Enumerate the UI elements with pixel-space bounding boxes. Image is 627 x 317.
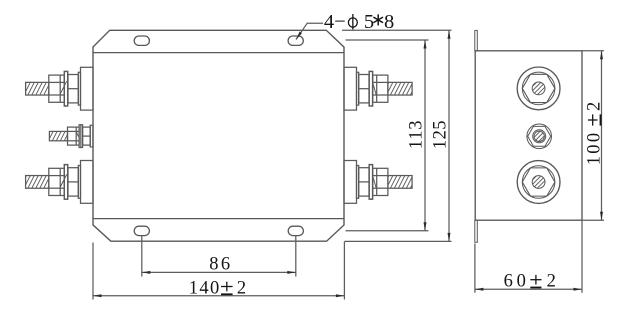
svg-text:125: 125 [430, 120, 450, 149]
svg-text:8: 8 [384, 11, 394, 33]
svg-text:2: 2 [547, 272, 556, 292]
svg-text:2: 2 [237, 278, 246, 298]
svg-text:2: 2 [585, 102, 605, 111]
svg-text:4−: 4− [324, 11, 346, 33]
svg-text:100: 100 [585, 133, 605, 165]
svg-text:60: 60 [504, 272, 526, 292]
svg-text:113: 113 [407, 120, 427, 149]
svg-text:86: 86 [209, 255, 230, 275]
svg-text:5: 5 [364, 11, 374, 33]
svg-text:140: 140 [189, 278, 220, 298]
